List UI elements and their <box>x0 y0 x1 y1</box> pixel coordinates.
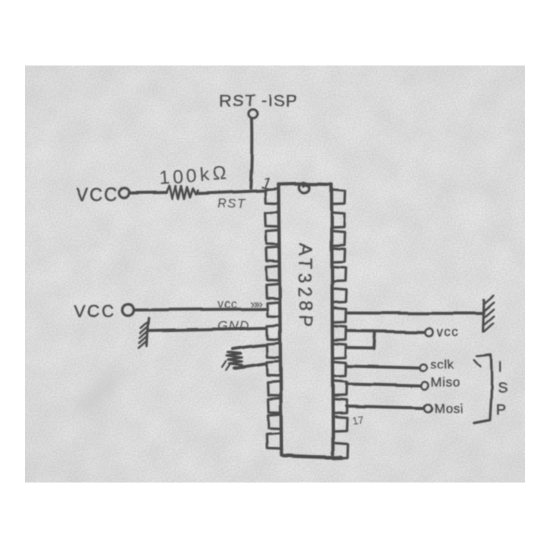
svg-text:»»: »» <box>250 296 262 311</box>
svg-text:Mosi: Mosi <box>434 401 463 416</box>
svg-text:vcc: vcc <box>218 297 238 311</box>
svg-text:17: 17 <box>352 414 365 427</box>
svg-text:VCC: VCC <box>76 185 119 205</box>
svg-text:RST: RST <box>217 196 246 211</box>
svg-text:S: S <box>497 380 507 397</box>
svg-text:vcc: vcc <box>437 324 460 339</box>
svg-text:VCC: VCC <box>74 302 116 321</box>
svg-text:I: I <box>498 359 502 376</box>
svg-text:AT328P: AT328P <box>295 243 315 331</box>
svg-text:GND: GND <box>218 318 250 333</box>
svg-text:Miso: Miso <box>431 375 460 390</box>
svg-text:P: P <box>496 402 506 419</box>
svg-text:sclk: sclk <box>430 357 454 372</box>
svg-text:RST -ISP: RST -ISP <box>219 91 298 110</box>
